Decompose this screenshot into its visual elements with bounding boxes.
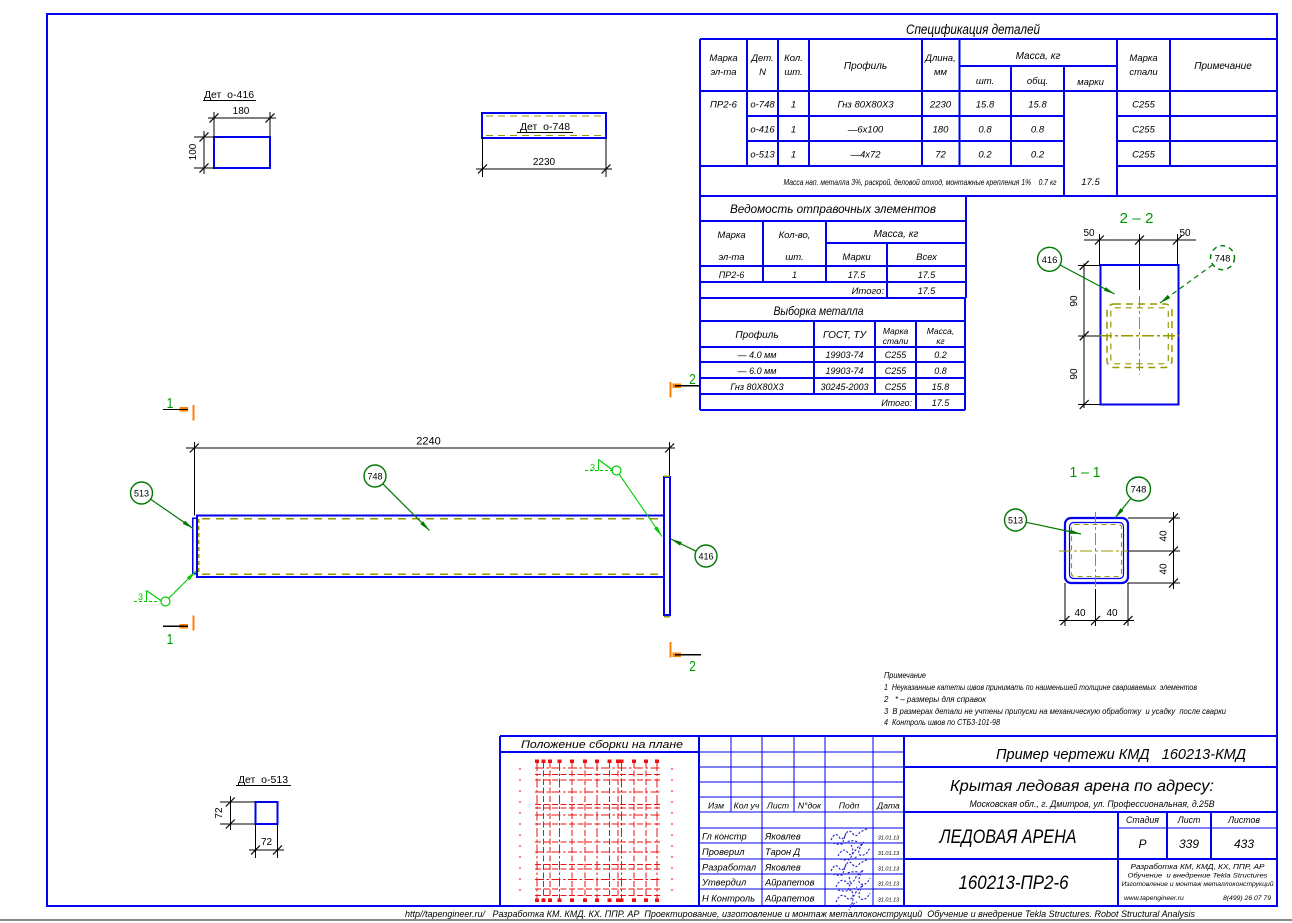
svg-text:Лист: Лист: [766, 801, 789, 811]
svg-text:2 * – размеры для справок: 2 * – размеры для справок: [883, 695, 987, 704]
svg-text:Примечание: Примечание: [884, 671, 926, 680]
svg-text:www.tapengineer.ru: www.tapengineer.ru: [1124, 895, 1184, 902]
svg-text:50: 50: [1083, 228, 1095, 239]
svg-text:19903-74: 19903-74: [825, 350, 863, 360]
svg-text:мм: мм: [934, 67, 948, 78]
svg-text:17.5: 17.5: [848, 270, 867, 280]
svg-text:Тарон Д: Тарон Д: [765, 847, 801, 857]
svg-text:15.8: 15.8: [932, 382, 950, 392]
svg-text:72: 72: [261, 837, 273, 848]
svg-text:http//tapengineer.ru/ Разраб: http//tapengineer.ru/ Разработка КМ. КМД…: [405, 909, 1195, 919]
svg-text:31.01.13: 31.01.13: [878, 882, 900, 888]
svg-text:17.5: 17.5: [918, 286, 937, 296]
svg-text:72: 72: [214, 807, 225, 819]
svg-text:Айрапетов: Айрапетов: [764, 878, 815, 888]
svg-text:Марка: Марка: [883, 326, 909, 336]
svg-text:эл-та: эл-та: [710, 67, 736, 78]
svg-text:шт.: шт.: [784, 67, 802, 78]
svg-text:Дет о-513: Дет о-513: [238, 774, 288, 786]
svg-text:15.8: 15.8: [1028, 100, 1047, 111]
svg-text:Московская обл., г. Дмитров, у: Московская обл., г. Дмитров, ул. Професс…: [970, 799, 1215, 809]
svg-text:Яковлев: Яковлев: [764, 832, 801, 842]
svg-text:С255: С255: [885, 350, 908, 360]
svg-text:416: 416: [698, 552, 713, 562]
svg-text:15.8: 15.8: [976, 100, 995, 111]
svg-text:Масса,: Масса,: [927, 326, 955, 336]
svg-text:Разработал: Разработал: [702, 863, 757, 873]
svg-text:— 4.0 мм: — 4.0 мм: [737, 350, 777, 360]
svg-text:С255: С255: [885, 366, 908, 376]
svg-text:31.01.13: 31.01.13: [878, 836, 900, 842]
svg-text:Примечание: Примечание: [1194, 61, 1252, 72]
svg-text:шт.: шт.: [976, 76, 994, 87]
svg-text:0.2: 0.2: [978, 150, 992, 161]
svg-text:кг: кг: [936, 336, 944, 346]
svg-text:0.8: 0.8: [934, 366, 947, 376]
svg-text:N: N: [759, 67, 766, 78]
svg-text:50: 50: [1179, 228, 1191, 239]
svg-text:19903-74: 19903-74: [825, 366, 863, 376]
svg-text:416: 416: [1042, 255, 1058, 266]
svg-text:Дата: Дата: [876, 801, 900, 811]
svg-text:0.2: 0.2: [1031, 150, 1045, 161]
svg-text:513: 513: [134, 489, 149, 499]
svg-text:1 – 1: 1 – 1: [1070, 464, 1101, 481]
svg-text:1: 1: [791, 150, 796, 161]
svg-text:2230: 2230: [533, 157, 556, 168]
svg-text:Проверил: Проверил: [702, 847, 745, 857]
svg-text:о-513: о-513: [750, 150, 775, 161]
svg-text:2 – 2: 2 – 2: [1120, 210, 1154, 227]
svg-text:Итого:: Итого:: [852, 286, 885, 297]
svg-text:72: 72: [935, 150, 946, 161]
svg-text:Дет.: Дет.: [750, 53, 773, 64]
svg-text:Подп: Подп: [839, 801, 860, 811]
svg-text:Стадия: Стадия: [1126, 815, 1159, 825]
svg-text:Положение сборки на плане: Положение сборки на плане: [521, 739, 683, 751]
svg-text:40: 40: [1106, 608, 1118, 619]
svg-text:Лист: Лист: [1177, 815, 1201, 825]
svg-text:Крытая ледовая арена по адресу: Крытая ледовая арена по адресу:: [950, 778, 1214, 795]
svg-text:С255: С255: [1132, 125, 1155, 136]
svg-text:Длина,: Длина,: [924, 53, 955, 64]
svg-text:Обучение и внедрение Tekla St: Обучение и внедрение Tekla Structures: [1128, 872, 1269, 880]
svg-text:Масса нап. металла 3%, раскрой: Масса нап. металла 3%, раскрой, деловой …: [784, 177, 1057, 187]
svg-text:Масса, кг: Масса, кг: [874, 229, 919, 240]
svg-text:31.01.13: 31.01.13: [878, 898, 900, 904]
svg-text:4 Контроль швов по СТБ3-101-9: 4 Контроль швов по СТБ3-101-98: [884, 718, 1000, 727]
svg-text:Масса, кг: Масса, кг: [1016, 51, 1061, 62]
svg-text:Кол.: Кол.: [784, 53, 803, 64]
svg-text:1: 1: [792, 270, 797, 280]
svg-text:Марки: Марки: [842, 252, 871, 263]
svg-text:40: 40: [1159, 530, 1170, 542]
svg-text:31.01.13: 31.01.13: [878, 867, 900, 873]
svg-text:160213-ПР2-6: 160213-ПР2-6: [959, 872, 1069, 894]
svg-text:0.2: 0.2: [934, 350, 947, 360]
svg-text:Кол уч: Кол уч: [734, 801, 760, 811]
svg-text:шт.: шт.: [785, 252, 803, 263]
svg-text:3: 3: [138, 592, 143, 602]
svg-text:—4х72: —4х72: [849, 150, 881, 161]
svg-text:17.5: 17.5: [918, 270, 937, 280]
svg-text:стали: стали: [1129, 67, 1158, 78]
svg-text:30245-2003: 30245-2003: [820, 382, 868, 392]
svg-text:Р: Р: [1138, 837, 1146, 851]
svg-text:1: 1: [791, 125, 796, 136]
svg-text:8(499) 26 07 79: 8(499) 26 07 79: [1223, 895, 1271, 902]
svg-text:1: 1: [167, 631, 174, 648]
svg-text:о-748: о-748: [750, 100, 775, 111]
svg-text:100: 100: [188, 143, 199, 160]
svg-text:748: 748: [367, 472, 382, 482]
svg-text:2240: 2240: [416, 436, 440, 448]
svg-text:—6х100: —6х100: [847, 125, 884, 136]
svg-text:С255: С255: [885, 382, 908, 392]
svg-text:433: 433: [1234, 837, 1254, 851]
svg-text:513: 513: [1008, 516, 1023, 526]
svg-text:— 6.0 мм: — 6.0 мм: [737, 366, 777, 376]
svg-text:Н Контроль: Н Контроль: [702, 894, 755, 904]
svg-text:180: 180: [233, 106, 250, 117]
svg-text:17.5: 17.5: [1081, 177, 1100, 188]
svg-text:Марка: Марка: [717, 230, 745, 241]
svg-text:Кол-во,: Кол-во,: [779, 230, 811, 241]
svg-text:общ.: общ.: [1027, 76, 1048, 87]
svg-text:2: 2: [689, 371, 696, 388]
svg-text:ГОСТ, ТУ: ГОСТ, ТУ: [823, 330, 868, 341]
svg-text:90: 90: [1069, 368, 1080, 380]
svg-text:Дет о-416: Дет о-416: [204, 89, 254, 101]
svg-text:эл-та: эл-та: [718, 252, 744, 263]
svg-text:0.8: 0.8: [978, 125, 992, 136]
svg-text:Разработка КМ, КМД, КХ, ППР, А: Разработка КМ, КМД, КХ, ППР, АР: [1131, 862, 1265, 871]
svg-text:марки: марки: [1077, 77, 1105, 88]
svg-text:90: 90: [1069, 295, 1080, 307]
svg-text:Марка: Марка: [709, 53, 737, 64]
svg-text:40: 40: [1159, 563, 1170, 575]
svg-text:3: 3: [590, 463, 595, 473]
svg-text:Изготовление и монтаж металлок: Изготовление и монтаж металлоконструкций: [1122, 880, 1274, 888]
svg-text:ЛЕДОВАЯ АРЕНА: ЛЕДОВАЯ АРЕНА: [938, 827, 1077, 848]
svg-text:Утвердил: Утвердил: [701, 878, 747, 888]
svg-text:ПР2-6: ПР2-6: [710, 100, 738, 111]
svg-text:1 Неуказанные катеты швов при: 1 Неуказанные катеты швов принимать по н…: [884, 683, 1197, 692]
svg-text:Пример чертежи КМД 160213-КМ: Пример чертежи КМД 160213-КМД: [996, 747, 1246, 763]
svg-text:Дет о-748: Дет о-748: [520, 121, 570, 133]
svg-text:17.5: 17.5: [932, 398, 951, 408]
svg-text:N°док: N°док: [798, 801, 822, 811]
svg-text:С255: С255: [1132, 150, 1155, 161]
svg-text:ПР2-6: ПР2-6: [719, 270, 745, 280]
svg-text:стали: стали: [883, 336, 909, 346]
svg-text:Яковлев: Яковлев: [764, 863, 801, 873]
svg-text:3 В размерах детали не учтены: 3 В размерах детали не учтены припуски н…: [884, 707, 1227, 716]
svg-text:1: 1: [167, 395, 174, 412]
svg-text:748: 748: [1131, 485, 1147, 496]
svg-text:о-416: о-416: [750, 125, 775, 136]
svg-text:1: 1: [791, 100, 796, 111]
svg-text:С255: С255: [1132, 100, 1155, 111]
svg-text:Айрапетов: Айрапетов: [764, 894, 815, 904]
svg-text:40: 40: [1074, 608, 1086, 619]
svg-text:Гнз 80Х80Х3: Гнз 80Х80Х3: [837, 100, 894, 111]
svg-text:Листов: Листов: [1227, 815, 1260, 825]
svg-text:339: 339: [1179, 837, 1199, 851]
svg-text:748: 748: [1215, 253, 1231, 264]
svg-text:Спецификация деталей: Спецификация деталей: [906, 22, 1040, 37]
svg-text:2: 2: [689, 658, 696, 675]
svg-text:Гл констр: Гл констр: [702, 832, 747, 842]
svg-text:2230: 2230: [929, 100, 952, 111]
svg-text:Всех: Всех: [916, 252, 938, 263]
svg-text:180: 180: [933, 125, 950, 136]
svg-text:Ведомость отправочных элементо: Ведомость отправочных элементов: [730, 204, 936, 216]
svg-text:0.8: 0.8: [1031, 125, 1045, 136]
svg-text:Выборка металла: Выборка металла: [774, 306, 864, 318]
svg-text:Марка: Марка: [1129, 53, 1157, 64]
svg-text:31.01.13: 31.01.13: [878, 851, 900, 857]
svg-text:Итого:: Итого:: [881, 398, 912, 408]
svg-text:Профиль: Профиль: [844, 60, 887, 72]
svg-text:Профиль: Профиль: [735, 329, 778, 341]
svg-text:Изм: Изм: [708, 801, 724, 811]
svg-text:Гнз 80Х80Х3: Гнз 80Х80Х3: [730, 382, 783, 392]
